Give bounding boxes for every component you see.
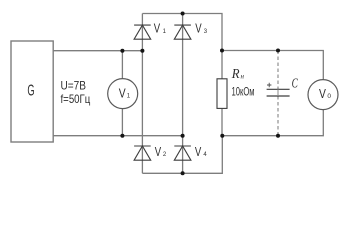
- wire capacitor top dashed: [277, 51, 279, 90]
- diode V1: [134, 22, 167, 40]
- diode V4: [174, 145, 207, 160]
- generator G box: [11, 41, 53, 142]
- svg-text:f=50Гц: f=50Гц: [61, 92, 91, 106]
- svg-text:G: G: [27, 83, 34, 100]
- svg-text:3: 3: [204, 29, 208, 35]
- svg-text:U=7В: U=7В: [61, 79, 87, 93]
- node G top / bridge left: [140, 49, 144, 53]
- wire load top rail: [222, 51, 323, 80]
- wire G bottom output: [53, 135, 182, 137]
- node load top rail / resistor: [220, 49, 224, 53]
- svg-text:10кОм: 10кОм: [232, 84, 255, 98]
- svg-text:2: 2: [163, 152, 167, 158]
- wire resistor bottom lead: [221, 108, 223, 135]
- node load top rail / capacitor: [276, 49, 280, 53]
- node G bottom / bridge right: [181, 134, 185, 138]
- svg-text:V: V: [154, 22, 161, 36]
- node load bottom rail / capacitor: [276, 134, 280, 138]
- svg-text:C: C: [292, 76, 299, 91]
- wire bridge left column: [141, 14, 143, 174]
- svg-text:V: V: [319, 86, 326, 101]
- svg-text:R: R: [231, 67, 240, 82]
- wire top rail: [142, 14, 222, 51]
- node G top / PV1 tap: [120, 49, 124, 53]
- voltmeter PV0: [308, 80, 338, 110]
- resistor Rn: [217, 67, 245, 108]
- svg-text:V: V: [119, 85, 126, 100]
- wire load bottom rail: [222, 110, 323, 136]
- wire bridge bottom rail: [142, 136, 222, 174]
- node top rail / V3 cathode: [181, 12, 185, 16]
- node G bottom / PV1 tap: [120, 134, 124, 138]
- diode V3: [174, 22, 207, 40]
- wire bridge right column: [182, 14, 184, 174]
- svg-text:0: 0: [327, 93, 331, 100]
- wire G top output: [53, 50, 142, 52]
- voltmeter PV1: [108, 79, 138, 109]
- svg-text:V: V: [155, 145, 162, 159]
- node bridge bottom rail / V4 anode: [181, 171, 185, 175]
- wire voltmeter PV1 top stem: [121, 51, 123, 79]
- node load bottom rail / resistor: [220, 134, 224, 138]
- diode V2: [134, 145, 167, 160]
- wire voltmeter PV1 bottom stem: [121, 109, 123, 136]
- svg-text:V: V: [195, 22, 202, 36]
- svg-text:н: н: [241, 73, 245, 81]
- wire resistor top lead: [221, 51, 223, 79]
- capacitor C: [267, 76, 299, 96]
- svg-text:1: 1: [163, 29, 167, 35]
- svg-text:4: 4: [203, 152, 207, 158]
- wire capacitor bottom dashed: [277, 96, 279, 136]
- svg-text:V: V: [195, 145, 202, 159]
